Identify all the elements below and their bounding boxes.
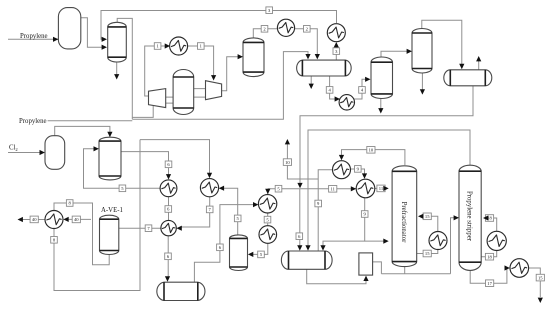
svg-text:Propylene: Propylene: [20, 33, 48, 40]
svg-text:40: 40: [74, 217, 79, 222]
svg-text:Prefractionator: Prefractionator: [400, 202, 407, 243]
svg-text:10: 10: [285, 160, 290, 165]
svg-text:18: 18: [487, 254, 492, 259]
svg-text:15: 15: [425, 214, 430, 219]
svg-text:11: 11: [379, 186, 384, 191]
svg-text:11: 11: [330, 187, 335, 192]
svg-text:Propylene: Propylene: [19, 118, 47, 125]
svg-text:17: 17: [487, 281, 492, 286]
svg-text:40: 40: [32, 217, 37, 222]
svg-text:Propylene stripper: Propylene stripper: [466, 191, 473, 242]
svg-text:10: 10: [369, 148, 374, 153]
svg-text:15: 15: [538, 275, 543, 280]
svg-text:15: 15: [425, 251, 430, 256]
svg-text:A-VE-1: A-VE-1: [101, 207, 123, 214]
